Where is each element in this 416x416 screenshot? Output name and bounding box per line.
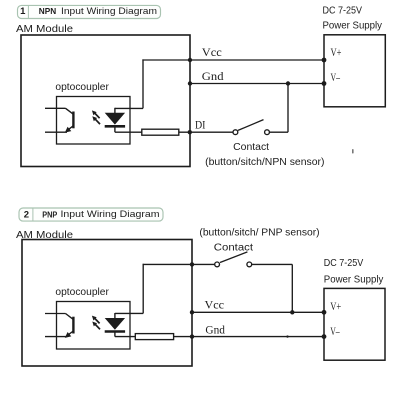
svg-text:Vcc: Vcc	[202, 47, 222, 59]
node: Gnd at module edge	[190, 334, 194, 338]
LED D1 cathode stub	[114, 126, 116, 132]
LED D2 cathode stub	[114, 332, 116, 337]
phototransistor Q2 emitter stub	[45, 336, 67, 338]
title box 2	[19, 208, 163, 221]
svg-text:Contact: Contact	[233, 142, 269, 153]
wire: anode to riser	[115, 107, 143, 109]
node: Gnd at supply	[322, 334, 327, 339]
wire: cathode to resistor	[115, 336, 135, 338]
svg-text:AM Module: AM Module	[16, 24, 73, 35]
optocoupler box U1	[57, 97, 131, 145]
svg-text:Gnd: Gnd	[205, 325, 225, 337]
svg-text:V–: V–	[330, 326, 340, 338]
phototransistor Q2 base bar	[72, 317, 74, 334]
LED D2 cathode bar	[105, 330, 125, 333]
svg-text:NPN: NPN	[39, 6, 56, 16]
node: Gnd at module edge	[188, 81, 192, 85]
svg-text:Gnd: Gnd	[202, 71, 224, 83]
LED D1 anode stub	[114, 108, 116, 114]
power supply box	[324, 35, 385, 107]
svg-text:Power Supply: Power Supply	[323, 20, 383, 32]
svg-text:DI: DI	[195, 120, 206, 132]
node: Vcc at module edge	[190, 310, 194, 314]
svg-text:V–: V–	[331, 72, 341, 84]
LED D2 triangle	[105, 318, 125, 330]
svg-text:V+: V+	[331, 47, 342, 59]
svg-text:Input Wiring Diagram: Input Wiring Diagram	[61, 209, 160, 220]
resistor R2	[135, 334, 173, 340]
svg-text:V+: V+	[330, 301, 341, 313]
wire: return riser to Gnd	[287, 84, 289, 133]
svg-text:optocoupler: optocoupler	[55, 82, 109, 93]
title box 1	[18, 5, 161, 18]
switch S1 blade	[238, 120, 264, 131]
node: Gnd at supply	[322, 81, 327, 86]
svg-text:DC 7-25V: DC 7-25V	[323, 5, 363, 17]
wire: riser to contact	[142, 264, 144, 314]
wire: Vcc line	[192, 311, 324, 313]
phototransistor Q1 emitter stub	[45, 131, 67, 133]
wire: contact to return	[252, 263, 293, 265]
phototransistor Q1 collector lead	[66, 108, 74, 114]
node: DI at module edge	[188, 130, 192, 134]
svg-text:optocoupler: optocoupler	[55, 287, 109, 298]
switch S2 contact pole	[215, 262, 220, 267]
node: Vcc return junction	[290, 310, 294, 314]
wire: cathode to resistor	[115, 131, 142, 133]
AM Module box	[21, 35, 190, 167]
light arrow 3	[95, 319, 100, 324]
wire: anode to riser	[115, 312, 143, 314]
switch S2 contact throw	[247, 262, 252, 267]
phototransistor Q1 emitter lead with arrow	[67, 126, 73, 131]
node: Gnd contact junction	[286, 81, 290, 85]
optocoupler box U2	[57, 302, 131, 350]
node: contact at module edge	[190, 262, 194, 266]
LED D1 cathode bar	[105, 125, 125, 128]
wire: Gnd line	[174, 336, 324, 338]
svg-text:Power Supply: Power Supply	[324, 273, 384, 285]
node: Vcc at supply	[322, 310, 327, 315]
switch S2 blade	[220, 252, 247, 263]
phototransistor Q1 base bar	[72, 112, 74, 129]
switch S1 contact throw	[265, 130, 270, 135]
svg-text:(button/sitch/ PNP sensor): (button/sitch/ PNP sensor)	[199, 228, 319, 239]
wire: Vcc line	[142, 59, 324, 61]
light arrow 2	[95, 119, 100, 124]
svg-text:1: 1	[20, 6, 26, 17]
phototransistor Q2 collector stub	[45, 313, 66, 315]
node: Vcc at supply	[322, 58, 327, 63]
svg-text:Vcc: Vcc	[205, 300, 225, 312]
node: Vcc at module edge	[188, 58, 192, 62]
phototransistor Q1 collector stub	[45, 107, 66, 109]
AM Module box	[22, 240, 192, 367]
phototransistor Q2 collector lead	[66, 314, 74, 320]
wire: contact feed line	[143, 263, 215, 265]
LED D2 anode stub	[114, 313, 116, 319]
LED D1 triangle	[105, 113, 125, 125]
power supply box	[324, 288, 385, 360]
wire: Vcc riser	[142, 59, 144, 108]
phototransistor Q2 emitter lead with arrow	[67, 331, 73, 336]
wire: Gnd line	[190, 83, 324, 85]
wire: contact to return	[269, 131, 288, 133]
light arrow 1	[95, 113, 100, 118]
light arrow 4	[95, 325, 100, 330]
wire: DI line	[179, 131, 233, 133]
wire: return riser to Vcc	[291, 264, 293, 312]
node: small Gnd junction	[286, 335, 288, 337]
svg-text:(button/sitch/NPN sensor): (button/sitch/NPN sensor)	[205, 157, 324, 168]
switch S1 contact pole	[233, 130, 238, 135]
svg-text:PNP: PNP	[42, 210, 58, 219]
svg-text:2: 2	[24, 210, 29, 221]
svg-text:Input Wiring Diagram: Input Wiring Diagram	[61, 6, 157, 17]
svg-text:DC 7-25V: DC 7-25V	[324, 257, 364, 269]
resistor R1	[142, 129, 179, 135]
stray tick mark	[352, 149, 354, 154]
